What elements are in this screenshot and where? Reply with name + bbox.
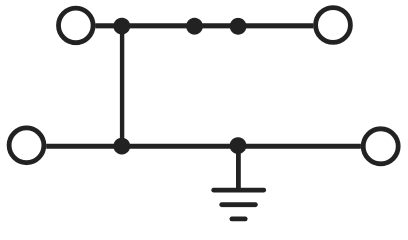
wire ground stem bbox=[236, 145, 241, 190]
terminal circle top-left bbox=[59, 8, 94, 43]
junction dot bottom A bbox=[113, 138, 130, 155]
ground bbox=[214, 190, 264, 219]
terminal circle bottom-left bbox=[9, 128, 44, 163]
wire bottom horizontal bbox=[46, 144, 361, 149]
junction dot bottom B bbox=[230, 137, 247, 154]
junction dot top B bbox=[186, 18, 203, 35]
terminal circle bottom-right bbox=[363, 129, 398, 164]
wire vertical bridge bbox=[120, 26, 124, 147]
junction dot top A bbox=[113, 18, 130, 35]
junction dot top C bbox=[230, 18, 247, 35]
wire top horizontal bbox=[95, 23, 313, 28]
terminal circle top-right bbox=[316, 8, 351, 43]
